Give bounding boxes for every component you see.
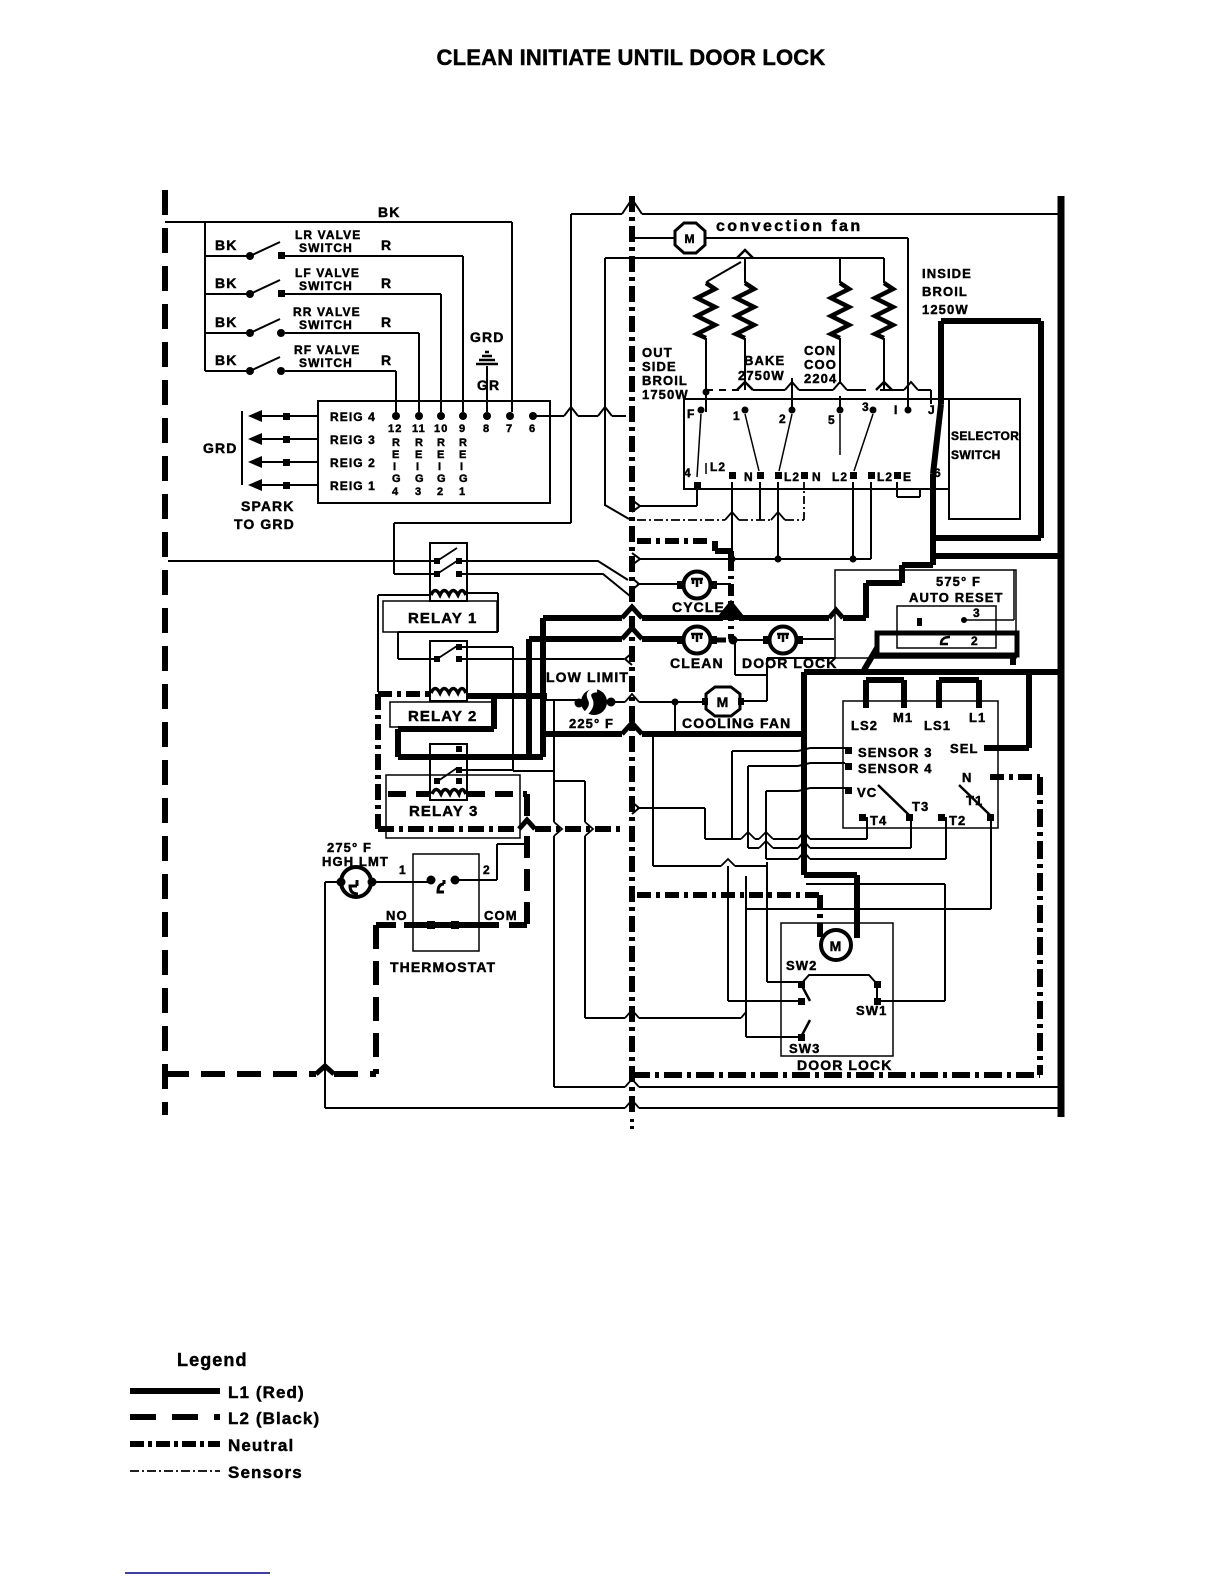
- pin 1: [733, 407, 749, 424]
- legend L2 line: [130, 1414, 220, 1420]
- hop y1087 over neutral: [625, 1079, 639, 1087]
- junction dot F node: [703, 389, 710, 396]
- svg-text:CLEAN: CLEAN: [670, 655, 724, 671]
- svg-text:T3: T3: [912, 799, 929, 814]
- junction dot x675: [672, 699, 679, 706]
- svg-text:T2: T2: [949, 813, 966, 828]
- wire ground stem to pin8: [486, 366, 488, 412]
- wire heater4 bottom: [883, 338, 885, 390]
- svg-text:7: 7: [506, 423, 513, 435]
- svg-text:LS2: LS2: [851, 718, 878, 733]
- wire cycle left to bus: [637, 583, 678, 585]
- svg-text:2: 2: [779, 412, 787, 426]
- L1 loop left edge: [938, 321, 944, 404]
- junction heater2 y390: [737, 382, 753, 390]
- svg-text:3: 3: [415, 486, 422, 498]
- pin N3: [801, 470, 822, 484]
- svg-text:2: 2: [483, 863, 491, 877]
- spark terminal REIG4: [248, 410, 376, 424]
- svg-text:GR: GR: [477, 377, 500, 393]
- wire pin2 stub: [791, 378, 793, 407]
- wire relay1 row2 west: [394, 573, 434, 575]
- svg-text:2: 2: [437, 486, 444, 498]
- L1 hop y618 over cycle rail: [719, 603, 743, 618]
- pin 3: [862, 400, 877, 414]
- pin E: [894, 470, 912, 484]
- neutral bus bottom dots: [630, 1119, 634, 1130]
- hop x585 over neutral y829: [585, 822, 593, 836]
- wire doorlock lamp right riser: [803, 638, 834, 640]
- L1 motor feed elbow: [804, 875, 857, 938]
- pin VC: [845, 785, 877, 800]
- svg-text:T1: T1: [966, 793, 983, 808]
- svg-text:225° F: 225° F: [569, 716, 614, 731]
- svg-text:SIDE: SIDE: [642, 359, 677, 374]
- spark terminal REIG2: [248, 456, 376, 470]
- L1 hop y618 over box edge: [829, 610, 843, 618]
- wire VC west: [766, 788, 845, 791]
- cooling fan motor: [702, 687, 744, 716]
- svg-text:GRD: GRD: [470, 329, 504, 345]
- L1 link to right bus y556: [933, 553, 1061, 559]
- L1 relay2 coil east: [466, 693, 547, 699]
- valve switch row 4 RF: [205, 343, 396, 375]
- relay 1 contact box: [430, 543, 467, 601]
- label box RELAY 2: [390, 702, 493, 727]
- wire SW1 east: [881, 1000, 945, 1002]
- relay1 contact b: [434, 561, 462, 577]
- door lock motor: [821, 930, 851, 960]
- svg-text:INSIDE: INSIDE: [922, 266, 972, 281]
- relay 3 contact box: [430, 744, 467, 800]
- svg-text:L2: L2: [832, 470, 848, 484]
- L1 x543 riser: [540, 618, 546, 757]
- svg-text:RELAY 3: RELAY 3: [409, 803, 478, 820]
- neutral door motor feed: [637, 895, 820, 938]
- svg-text:LOW LIMIT: LOW LIMIT: [546, 669, 629, 685]
- hop rowA x766: [759, 832, 773, 839]
- svg-text:REIG 1: REIG 1: [330, 479, 376, 493]
- wire junction to doorlock lamp: [736, 639, 764, 641]
- svg-text:LF VALVE: LF VALVE: [295, 266, 360, 280]
- pin I: [894, 403, 912, 417]
- svg-text:F: F: [687, 407, 695, 421]
- wire heater4 top stub: [883, 258, 885, 283]
- hop y1108 over neutral: [625, 1100, 639, 1108]
- svg-text:M: M: [830, 938, 843, 954]
- wire relay3 pin top east: [462, 769, 513, 771]
- wire common y390 solid: [753, 390, 931, 404]
- auto reset switch hook: [941, 637, 950, 644]
- thermostat NO-COM pins: [427, 921, 459, 929]
- svg-text:2: 2: [971, 634, 979, 648]
- pin L2 d: [868, 470, 893, 484]
- wire heater3 bottom to pin 5: [839, 338, 841, 412]
- svg-text:SPARK: SPARK: [241, 498, 294, 514]
- L1 hop y618 over neutral: [622, 607, 642, 618]
- wire heater feed y258: [605, 257, 884, 259]
- svg-text:CON: CON: [804, 343, 836, 358]
- wire T1 riser: [990, 818, 992, 909]
- switch SW2: [798, 975, 877, 1005]
- wire L2 relay3 coil left: [388, 791, 431, 797]
- wire heater3 top stub: [839, 258, 841, 283]
- svg-text:BK: BK: [215, 275, 237, 291]
- hop y214 over neutral: [622, 199, 642, 214]
- L1 stair y618 up to selector link: [866, 565, 933, 618]
- L1 racetrack to staple link: [1010, 655, 1016, 665]
- svg-text:R: R: [381, 314, 392, 330]
- spark gap bracket: [241, 411, 243, 485]
- neutral relay area vertical: [375, 694, 381, 829]
- relay1 contact a: [434, 548, 462, 564]
- wire neutral spur y808: [637, 807, 705, 809]
- wire highlimit to thermostat: [374, 881, 431, 883]
- wire x945 drop to SW1: [944, 884, 946, 1001]
- svg-text:BROIL: BROIL: [642, 373, 688, 388]
- svg-text:N: N: [744, 470, 754, 484]
- L1 y729 west: [398, 726, 494, 732]
- wire L2 COM east: [481, 922, 527, 928]
- wire y909: [746, 908, 991, 910]
- relay1 coil underline: [430, 600, 467, 602]
- junction cycle at bus: [632, 578, 639, 590]
- wire sensor3 west: [732, 748, 845, 751]
- svg-text:BAKE: BAKE: [744, 353, 785, 368]
- wire pin N1 drop: [731, 482, 733, 559]
- hop rowB x766: [759, 841, 773, 848]
- svg-text:L1: L1: [969, 710, 986, 725]
- L1 main right bus: [1058, 196, 1065, 1117]
- spark terminal REIG1: [248, 479, 376, 493]
- L1 tee x494 down: [491, 696, 497, 729]
- label box RELAY 3: [386, 775, 520, 838]
- wire x653 drop: [652, 737, 654, 866]
- hop pin6 over x605: [598, 407, 612, 416]
- svg-text:G: G: [437, 473, 447, 485]
- spark terminal REIG3: [248, 433, 376, 447]
- ignitor connector box: [318, 401, 550, 503]
- legend Sensors line: [130, 1470, 220, 1472]
- svg-text:VC: VC: [857, 785, 877, 800]
- L1 racetrack around auto reset: [877, 633, 1017, 655]
- junction dot clean-doorlock: [729, 636, 738, 645]
- neutral bottom horizontal: [632, 1072, 1040, 1078]
- svg-text:RELAY 1: RELAY 1: [408, 610, 477, 627]
- junction y559 at bus: [632, 553, 640, 565]
- svg-text:REIG 2: REIG 2: [330, 456, 376, 470]
- pin SENSOR 4: [845, 761, 933, 776]
- hop y390 over pin2 wire: [785, 382, 799, 390]
- wire BK down to pin 7: [511, 222, 513, 412]
- svg-text:575° F: 575° F: [936, 574, 981, 589]
- relay2 coil: [431, 689, 466, 694]
- wiper 2-L2: [779, 414, 792, 471]
- svg-text:J: J: [928, 403, 936, 417]
- svg-text:SELECTOR: SELECTOR: [951, 429, 1019, 443]
- L1 pin6 drop: [930, 474, 936, 556]
- svg-text:SEL: SEL: [950, 741, 979, 756]
- pin T4: [859, 813, 887, 828]
- hop y1018 over neutral: [625, 1010, 639, 1018]
- wire heater2 bottom: [744, 338, 746, 390]
- auto reset outer box: [835, 570, 1016, 658]
- wire L2 thermostat riser: [373, 925, 379, 1074]
- sensors riser to pin N3: [803, 482, 805, 520]
- svg-text:AUTO RESET: AUTO RESET: [909, 590, 1004, 605]
- pin 2 auto reset: [971, 634, 979, 648]
- hop rowC x804: [798, 852, 810, 859]
- svg-text:R: R: [381, 275, 392, 291]
- pin N2: [757, 472, 764, 479]
- wire bottom y1087: [554, 1086, 1059, 1088]
- wire VC drop x766: [765, 791, 767, 859]
- wire L2 relay3 coil right: [467, 791, 527, 797]
- svg-text:SWITCH: SWITCH: [299, 318, 353, 332]
- wire highlimit west drop: [325, 882, 338, 1108]
- neutral clean to doorlock link: [717, 638, 736, 643]
- L1 board feed line y672: [804, 669, 1061, 675]
- pin 12: [388, 412, 402, 435]
- wire fan right to pin I: [706, 238, 908, 408]
- svg-text:M1: M1: [893, 710, 913, 725]
- wiper F-4: [697, 414, 701, 477]
- convection fan motor M: [675, 223, 705, 253]
- svg-text:CYCLE: CYCLE: [672, 599, 725, 615]
- svg-text:E: E: [415, 449, 423, 461]
- wire bottom y1108: [325, 1107, 1059, 1109]
- svg-text:M: M: [717, 694, 730, 710]
- neutral main bus vertical: [629, 196, 635, 1117]
- wire cooling fan right riser: [742, 658, 835, 701]
- svg-text:BK: BK: [378, 204, 400, 220]
- switch SW1: [856, 981, 887, 1018]
- svg-text:Legend: Legend: [177, 1350, 248, 1370]
- switch T3: [878, 785, 929, 821]
- wire sensor4 drop x748: [747, 766, 749, 848]
- high limit switch: [337, 867, 377, 897]
- neutral relay2 coil link: [378, 691, 430, 697]
- svg-text:SWITCH: SWITCH: [299, 241, 353, 255]
- svg-text:RR VALVE: RR VALVE: [293, 305, 361, 319]
- pin SEL: [950, 675, 1029, 756]
- wire T2 riser: [945, 817, 947, 859]
- wire pin6 east: [533, 415, 626, 417]
- hop fanwire over neutral: [625, 694, 639, 702]
- wire relay1 coil left to neutral: [378, 595, 431, 692]
- junction heater2 top: [737, 250, 753, 258]
- hop rowB x804: [798, 841, 810, 848]
- wire y771: [513, 770, 554, 772]
- wire lowlimit to cooling fan: [612, 701, 705, 703]
- valve switch row 2 LF: [205, 266, 441, 298]
- pin T2: [938, 813, 966, 828]
- svg-text:L2: L2: [877, 470, 893, 484]
- svg-text:TO GRD: TO GRD: [234, 516, 295, 532]
- wire pin L2d drop: [870, 482, 872, 559]
- wire relay1 coil right loop to relay2: [398, 593, 498, 659]
- svg-text:R: R: [392, 437, 401, 449]
- wire L2 thermostat bar solid: [404, 922, 481, 928]
- auto reset pins box: [897, 606, 996, 648]
- svg-text:SW1: SW1: [856, 1003, 887, 1018]
- legend L1 line: [130, 1388, 220, 1394]
- wire sensor3 drop x732: [731, 751, 733, 839]
- relay2 contact row: [434, 646, 462, 662]
- svg-text:G: G: [392, 473, 402, 485]
- svg-text:NO: NO: [386, 908, 408, 923]
- hop rowA x748: [741, 832, 755, 839]
- switch T1: [959, 785, 994, 821]
- hop y390 over heater3: [833, 382, 847, 390]
- svg-text:R: R: [381, 352, 392, 368]
- wire x746 upper: [745, 876, 747, 1012]
- svg-text:12: 12: [388, 423, 402, 435]
- relay 2 contact box: [430, 641, 467, 701]
- wiper 1-N: [745, 414, 759, 471]
- wire y781 link: [554, 780, 585, 782]
- pin 6: [529, 412, 537, 435]
- pin J: [928, 403, 936, 417]
- L1 stair down to auto reset box: [930, 556, 936, 565]
- svg-text:L1 (Red): L1 (Red): [228, 1383, 305, 1402]
- pin SENSOR 3: [845, 745, 933, 760]
- svg-text:LS1: LS1: [924, 718, 951, 733]
- L1 inside broil loop top: [941, 318, 1041, 324]
- wire pin N2 drop: [759, 482, 761, 520]
- thermostat contact dots: [427, 876, 460, 893]
- pin F: [687, 407, 705, 422]
- pin N1: [729, 470, 754, 484]
- svg-text:T4: T4: [870, 813, 887, 828]
- wire L2 bus bottom horizontal: [165, 1071, 376, 1077]
- svg-text:G: G: [415, 473, 425, 485]
- L1 x529 riser: [526, 639, 532, 757]
- wire heater2 top stub: [744, 258, 746, 283]
- hop rowD x728: [721, 859, 735, 866]
- neutral relay area horizontal y829: [378, 826, 625, 832]
- L1 x398 down: [395, 729, 401, 757]
- pin 8: [483, 412, 491, 435]
- relay3 contact row: [434, 768, 462, 784]
- neutral N-pin link: [990, 774, 1040, 780]
- wire T4 riser: [866, 817, 868, 839]
- wire switch feed bus: [204, 222, 206, 371]
- door lock box: [781, 923, 893, 1056]
- svg-text:1750W: 1750W: [642, 387, 689, 402]
- L1 staple LS1: [939, 680, 979, 708]
- pin 1 auto reset: [917, 618, 922, 626]
- pin L2 b: [775, 470, 800, 484]
- L1 racetrack tail: [864, 648, 877, 670]
- svg-text:N: N: [962, 770, 973, 785]
- bundle row A y839: [705, 838, 867, 840]
- svg-text:SWITCH: SWITCH: [299, 279, 353, 293]
- wire pin L2b drop: [777, 482, 779, 559]
- pin L2 c: [832, 470, 857, 484]
- wire bottom y1018: [585, 1017, 741, 1019]
- wire row4 to pin12: [395, 371, 397, 412]
- wire x554 down: [553, 700, 555, 1087]
- svg-text:OUT: OUT: [642, 345, 673, 360]
- wire L2 hop over neutral y829: [519, 820, 535, 829]
- svg-text:9: 9: [459, 423, 466, 435]
- L1 motor feed x804: [801, 672, 807, 875]
- L1 hop y734 over neutral: [622, 723, 642, 734]
- door lock lamp: [763, 627, 803, 654]
- svg-text:8: 8: [483, 423, 490, 435]
- hop sensors over x732: [725, 512, 739, 520]
- valve switch row 3 RR: [205, 305, 419, 337]
- junction pin4 wire at bus: [632, 500, 640, 512]
- svg-text:I: I: [460, 461, 464, 473]
- L1 main east y618: [543, 615, 866, 621]
- sensors line y520: [637, 519, 804, 521]
- junction dot y559 x732: [729, 556, 736, 563]
- junction heater4 y390: [876, 382, 892, 390]
- svg-text:DOOR LOCK: DOOR LOCK: [797, 1057, 892, 1073]
- bundle row D y866: [653, 865, 766, 867]
- selector switch box: [684, 399, 949, 489]
- svg-text:Neutral: Neutral: [228, 1436, 294, 1455]
- bundle row B y848: [748, 847, 911, 849]
- wire common y559: [640, 558, 871, 560]
- svg-text:SENSOR 3: SENSOR 3: [858, 745, 933, 760]
- neutral right riser: [1037, 777, 1043, 1075]
- pin 11: [412, 412, 426, 435]
- svg-text:I: I: [393, 461, 397, 473]
- neutral elbow to rail: [715, 541, 731, 570]
- L1 y757 east: [398, 754, 543, 760]
- svg-text:11: 11: [412, 423, 426, 435]
- svg-text:10: 10: [434, 423, 448, 435]
- wire relay2 row2 east: [462, 658, 624, 660]
- svg-text:M: M: [684, 232, 695, 246]
- svg-text:BK: BK: [215, 352, 237, 368]
- svg-text:L2: L2: [784, 470, 800, 484]
- wire pin4 to neutral: [640, 489, 697, 506]
- svg-text:REIG 3: REIG 3: [330, 433, 376, 447]
- svg-text:BK: BK: [215, 237, 237, 253]
- wire common y390 dashed part: [706, 389, 745, 391]
- L1 cooling row y734: [543, 731, 804, 737]
- svg-text:I: I: [416, 461, 420, 473]
- L1 wiper J-6: [933, 404, 941, 474]
- wire cycle right stub: [716, 583, 731, 585]
- svg-text:SWITCH: SWITCH: [951, 448, 1001, 462]
- wire SW3 feed: [746, 1012, 798, 1037]
- low limit switch: [575, 689, 616, 715]
- relay3 pin mid: [456, 767, 462, 773]
- wire row3 to pin11: [418, 333, 420, 412]
- svg-text:3: 3: [862, 400, 870, 414]
- footer rule: [125, 1572, 270, 1574]
- relay1 coil: [431, 591, 466, 596]
- ground symbol: [476, 352, 498, 364]
- svg-text:BROIL: BROIL: [922, 284, 968, 299]
- neutral cycle rail x731: [728, 559, 734, 639]
- pin 3 auto reset: [961, 570, 1014, 623]
- junction row2 at bus: [625, 653, 632, 665]
- svg-text:RELAY 2: RELAY 2: [408, 708, 477, 725]
- wire x675 drop: [674, 702, 676, 731]
- svg-text:Sensors: Sensors: [228, 1463, 303, 1482]
- svg-text:6: 6: [529, 423, 536, 435]
- svg-text:COO: COO: [804, 357, 837, 372]
- wire x585 down: [584, 781, 586, 1018]
- svg-text:L2 (Black): L2 (Black): [228, 1409, 320, 1428]
- wire low limit left stub: [545, 699, 577, 701]
